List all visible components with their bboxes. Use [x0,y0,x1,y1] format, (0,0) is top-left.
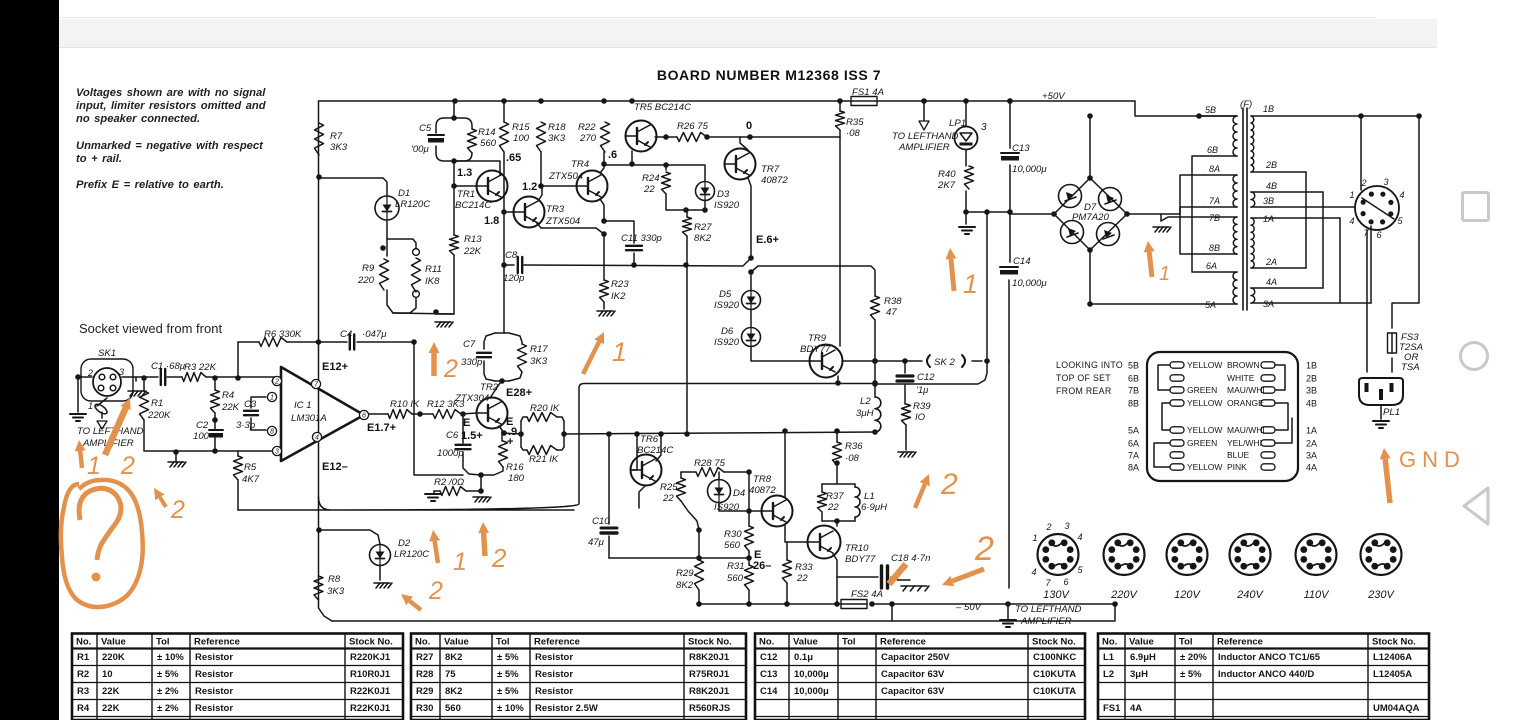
svg-text:Reference: Reference [1217,637,1263,648]
svg-text:10: 10 [102,669,113,680]
svg-text:No.: No. [76,637,91,648]
svg-text:2: 2 [274,379,279,386]
svg-text:120V: 120V [1174,589,1201,601]
svg-text:2A: 2A [1306,439,1317,449]
svg-text:4: 4 [1077,532,1082,542]
svg-text:D3: D3 [717,189,730,200]
svg-text:C8: C8 [505,250,518,261]
svg-text:AMPLIFIER: AMPLIFIER [1020,616,1072,627]
svg-text:4: 4 [1031,567,1036,577]
svg-text:± 10%: ± 10% [157,652,184,663]
svg-text:C10KUTA: C10KUTA [1033,669,1076,680]
svg-text:YELLOW: YELLOW [1187,462,1222,472]
svg-text:R17: R17 [530,344,548,355]
svg-text:2: 2 [1360,178,1366,188]
svg-text:4A: 4A [1266,277,1277,287]
svg-text:R2 /0Ω: R2 /0Ω [434,477,464,488]
svg-text:D5: D5 [719,289,732,300]
svg-text:5B: 5B [1128,361,1139,371]
svg-text:R23: R23 [611,279,629,290]
svg-text:2B: 2B [1265,160,1277,170]
svg-text:8K2: 8K2 [676,580,694,591]
svg-text:C10: C10 [592,516,610,527]
svg-text:C14: C14 [760,686,778,697]
svg-text:R27: R27 [694,222,712,233]
svg-text:L12405A: L12405A [1373,669,1412,680]
svg-text:E28+: E28+ [506,387,532,399]
svg-text:4K7: 4K7 [242,474,260,485]
svg-text:C12: C12 [917,372,935,383]
svg-text:1.8: 1.8 [484,215,499,227]
svg-text:TR4: TR4 [571,159,589,170]
svg-text:R37: R37 [826,491,844,502]
svg-text:R15: R15 [512,122,530,133]
svg-text:6B: 6B [1128,374,1139,384]
svg-text:UM04AQA: UM04AQA [1373,703,1420,714]
svg-text:LR120C: LR120C [395,199,430,210]
svg-text:1.3: 1.3 [457,167,472,179]
svg-text:R22K0J1: R22K0J1 [350,703,391,714]
svg-text:C18 4·7n: C18 4·7n [891,553,930,564]
svg-text:1: 1 [270,395,274,402]
svg-text:Value: Value [793,637,818,648]
svg-text:L1: L1 [1103,652,1115,663]
svg-text:3μH: 3μH [856,408,874,419]
svg-text:22: 22 [796,573,808,584]
svg-text:R4: R4 [222,390,234,401]
svg-text:TR10: TR10 [845,543,869,554]
svg-text:FS2 4A: FS2 4A [851,589,883,600]
svg-text:560: 560 [445,703,461,714]
svg-text:Stock No.: Stock No. [1032,637,1076,648]
svg-text:22: 22 [827,502,839,513]
svg-text:5: 5 [1397,216,1403,226]
svg-text:4A: 4A [1306,463,1317,473]
svg-text:C1 ·68μ: C1 ·68μ [151,361,186,372]
svg-text:1: 1 [87,452,101,480]
svg-text:BOARD NUMBER M12368 ISS 7: BOARD NUMBER M12368 ISS 7 [657,67,881,83]
svg-text:3: 3 [1383,177,1388,187]
svg-text:8K2: 8K2 [694,233,712,244]
svg-text:TO LEFTHAND: TO LEFTHAND [892,131,959,142]
svg-text:3B: 3B [1306,386,1317,396]
svg-text:R5: R5 [244,462,257,473]
svg-text:to + rail.: to + rail. [76,153,122,165]
svg-text:TR9: TR9 [808,333,827,344]
svg-text:ZTX304: ZTX304 [454,393,489,404]
svg-text:R39: R39 [913,401,931,412]
svg-text:3·3p: 3·3p [236,420,256,431]
svg-text:Capacitor 63V: Capacitor 63V [881,669,945,680]
svg-text:R38: R38 [884,296,902,307]
svg-text:R6 330K: R6 330K [264,329,302,340]
svg-text:R3: R3 [77,686,89,697]
svg-text:± 10%: ± 10% [497,703,524,714]
svg-text:SK 2: SK 2 [934,357,955,368]
svg-text:IO: IO [915,412,926,423]
svg-text:R35: R35 [846,117,864,128]
svg-text:2: 2 [1045,522,1051,532]
svg-text:Tol: Tol [496,637,510,648]
svg-text:Prefix E = relative to earth.: Prefix E = relative to earth. [76,179,224,191]
svg-text:5A: 5A [1205,300,1216,310]
svg-text:1.5+: 1.5+ [461,430,483,442]
svg-text:Inductor ANCO 440/D: Inductor ANCO 440/D [1218,669,1314,680]
svg-text:R26 75: R26 75 [677,121,709,132]
svg-text:AMPLIFIER: AMPLIFIER [898,142,950,153]
svg-text:8A: 8A [1128,463,1139,473]
svg-text:22: 22 [662,493,674,504]
svg-text:Stock No.: Stock No. [349,637,393,648]
svg-text:TR5 BC214C: TR5 BC214C [634,102,691,113]
svg-text:YELLOW: YELLOW [1187,360,1222,370]
svg-text:47μ: 47μ [588,537,605,548]
svg-text:8B: 8B [1209,243,1220,253]
svg-text:R8K20J1: R8K20J1 [689,652,730,663]
svg-text:'00μ: '00μ [411,144,430,155]
svg-text:C13: C13 [1012,143,1030,154]
svg-text:2: 2 [170,496,185,524]
svg-text:TR7: TR7 [761,164,780,175]
svg-text:3K3: 3K3 [327,586,345,597]
svg-text:ORANGE: ORANGE [1227,398,1264,408]
svg-text:YEL/WHI: YEL/WHI [1227,438,1262,448]
svg-text:330p: 330p [461,357,483,368]
svg-text:R16: R16 [506,462,524,473]
svg-text:R28: R28 [416,669,433,680]
svg-text:R8: R8 [328,574,341,585]
svg-text:R10R0J1: R10R0J1 [350,669,391,680]
svg-text:R30: R30 [416,703,433,714]
svg-text:7: 7 [1363,228,1369,238]
svg-text:6: 6 [1376,230,1381,240]
svg-text:7A: 7A [1209,196,1220,206]
svg-text:R22K0J1: R22K0J1 [350,686,391,697]
svg-text:1.2: 1.2 [522,181,537,193]
svg-text:BC214C: BC214C [455,200,491,211]
svg-text:7: 7 [1045,578,1051,588]
svg-text:R8K20J1: R8K20J1 [689,686,730,697]
svg-text:E12–: E12– [322,461,348,473]
svg-text:R14: R14 [478,127,496,138]
svg-text:(F): (F) [1240,99,1252,110]
svg-text:6A: 6A [1128,439,1139,449]
svg-text:560: 560 [724,540,741,551]
svg-text:No.: No. [759,637,774,648]
svg-text:1A: 1A [1306,426,1317,436]
svg-text:± 5%: ± 5% [497,669,519,680]
svg-text:TO LEFTHAND: TO LEFTHAND [1015,604,1082,615]
svg-text:no speaker connected.: no speaker connected. [76,113,200,125]
svg-text:220K: 220K [147,410,171,421]
svg-text:180: 180 [508,473,525,484]
svg-text:8B: 8B [1128,399,1139,409]
svg-text:R36: R36 [845,441,863,452]
svg-text:1B: 1B [1306,361,1317,371]
svg-text:± 20%: ± 20% [1180,652,1207,663]
svg-text:100: 100 [193,431,210,442]
svg-text:PINK: PINK [1227,462,1247,472]
svg-text:D1: D1 [398,188,410,199]
svg-text:Resistor: Resistor [535,652,573,663]
svg-text:LM301A: LM301A [291,413,327,424]
svg-text:R75R0J1: R75R0J1 [689,669,730,680]
svg-text:0: 0 [746,120,752,132]
svg-text:75: 75 [445,669,456,680]
svg-text:E: E [463,417,470,429]
svg-text:220: 220 [357,275,375,286]
svg-text:130V: 130V [1043,589,1070,601]
svg-text:'1μ: '1μ [916,385,929,396]
svg-text:22K: 22K [102,686,120,697]
svg-text:SK1: SK1 [98,348,116,359]
svg-text:R30: R30 [724,529,742,540]
svg-text:YELLOW: YELLOW [1187,398,1222,408]
svg-text:220K: 220K [102,652,125,663]
svg-text:4B: 4B [1266,181,1277,191]
svg-text:560: 560 [727,573,744,584]
svg-text:BLUE: BLUE [1227,450,1250,460]
svg-text:Resistor: Resistor [195,669,233,680]
svg-text:IS920: IS920 [714,300,740,311]
svg-text:FS1: FS1 [1103,703,1121,714]
svg-text:1: 1 [88,401,93,411]
svg-text:1B: 1B [1263,104,1274,114]
svg-text:3A: 3A [1306,451,1317,461]
svg-text:IS920: IS920 [714,200,740,211]
svg-text:YELLOW: YELLOW [1187,425,1222,435]
svg-text:R29: R29 [676,568,694,579]
svg-text:R22: R22 [578,122,596,133]
svg-text:R10 IK: R10 IK [390,399,420,410]
svg-text:C12: C12 [760,652,777,663]
svg-text:R27: R27 [416,652,433,663]
svg-text:3: 3 [275,449,279,456]
svg-text:C10KUTA: C10KUTA [1033,686,1076,697]
svg-text:·08: ·08 [846,128,861,139]
svg-text:40872: 40872 [761,175,788,186]
svg-text:Capacitor 250V: Capacitor 250V [881,652,950,663]
svg-text:± 2%: ± 2% [157,686,179,697]
svg-text:8K2: 8K2 [445,686,462,697]
svg-text:GND: GND [1399,447,1466,472]
svg-text:R24: R24 [642,173,660,184]
svg-text:3K3: 3K3 [530,356,548,367]
svg-text:Capacitor 63V: Capacitor 63V [881,686,945,697]
svg-text:22K: 22K [102,703,120,714]
svg-text:IK8: IK8 [425,276,440,287]
svg-text:L12406A: L12406A [1373,652,1412,663]
svg-text:R25: R25 [660,482,678,493]
svg-text:C5: C5 [419,123,432,134]
svg-text:2: 2 [443,355,458,383]
svg-text:2: 2 [491,543,507,573]
svg-text:FROM REAR: FROM REAR [1056,386,1111,396]
svg-text:2B: 2B [1306,374,1317,384]
svg-text:5A: 5A [1128,426,1139,436]
svg-text:1000p: 1000p [437,448,464,459]
svg-text:·08: ·08 [845,453,860,464]
svg-text:± 5%: ± 5% [497,652,519,663]
svg-text:·047μ: ·047μ [362,329,387,340]
svg-text:TOP OF SET: TOP OF SET [1056,373,1111,383]
svg-text:1: 1 [1349,190,1354,200]
svg-text:230V: 230V [1367,589,1395,601]
svg-text:6·9μH: 6·9μH [861,502,887,513]
svg-text:E.6+: E.6+ [756,234,779,246]
svg-text:C13: C13 [760,669,777,680]
svg-text:3A: 3A [1263,299,1274,309]
svg-text:IK2: IK2 [611,291,626,302]
svg-text:3K3: 3K3 [330,142,348,153]
svg-text:TR8: TR8 [753,474,772,485]
svg-text:TR2: TR2 [480,382,499,393]
svg-text:1: 1 [453,548,467,576]
svg-text:4A: 4A [1130,703,1142,714]
svg-text:Resistor: Resistor [535,669,573,680]
svg-text:No.: No. [1102,637,1117,648]
svg-text:C7: C7 [463,339,476,350]
svg-text:10,000μ: 10,000μ [794,669,829,680]
svg-text:R28 75: R28 75 [694,458,726,469]
svg-text:R2: R2 [77,669,89,680]
svg-text:5: 5 [1077,565,1083,575]
svg-text:R40: R40 [938,169,956,180]
svg-text:D2: D2 [398,538,411,549]
svg-text:input, limiter resistors omitt: input, limiter resistors omitted and [76,100,267,112]
svg-text:Value: Value [101,637,126,648]
svg-text:220V: 220V [1110,589,1138,601]
svg-text:Reference: Reference [194,637,240,648]
svg-text:3μH: 3μH [1130,669,1148,680]
svg-text:TSA: TSA [1401,362,1420,373]
svg-text:2: 2 [974,530,994,568]
svg-text:3: 3 [1064,521,1069,531]
svg-text:C11 330p: C11 330p [621,233,663,244]
svg-text:4: 4 [1399,190,1404,200]
svg-text:BROWN: BROWN [1227,360,1260,370]
svg-text:4B: 4B [1306,399,1317,409]
svg-text:IS920: IS920 [714,502,740,513]
svg-text:10,000μ: 10,000μ [1012,278,1047,289]
svg-text:C14: C14 [1013,256,1031,267]
svg-text:R13: R13 [464,234,482,245]
svg-text:1: 1 [963,269,978,299]
svg-text:IC 1: IC 1 [294,400,312,411]
svg-text:3: 3 [119,367,124,377]
svg-text:.6: .6 [608,149,617,161]
svg-text:R11: R11 [425,264,442,275]
svg-text:0.1μ: 0.1μ [794,652,813,663]
svg-text:R1: R1 [151,398,163,409]
svg-text:8K2: 8K2 [445,652,462,663]
svg-text:TR6: TR6 [640,434,659,445]
svg-text:No.: No. [415,637,430,648]
svg-text:R1: R1 [77,652,90,663]
svg-text:3: 3 [981,122,987,133]
svg-text:1A: 1A [1263,214,1274,224]
svg-text:R18: R18 [548,122,566,133]
svg-text:FS1 4A: FS1 4A [852,87,884,98]
svg-text:6B: 6B [1207,145,1218,155]
svg-text:C6: C6 [446,430,459,441]
svg-text:D6: D6 [721,326,734,337]
svg-text:1: 1 [612,337,627,367]
svg-text:Inductor ANCO TC1/65: Inductor ANCO TC1/65 [1218,652,1321,663]
svg-text:IS920: IS920 [714,337,740,348]
svg-text:L2: L2 [1103,669,1114,680]
svg-text:BDY77: BDY77 [845,554,876,565]
svg-text:PM7A20: PM7A20 [1072,212,1109,223]
svg-text:560: 560 [480,138,497,149]
svg-text:8A: 8A [1209,164,1220,174]
svg-text:R31: R31 [727,561,745,572]
svg-text:2: 2 [940,468,958,501]
svg-text:Reference: Reference [880,637,926,648]
svg-text:ZTX504: ZTX504 [548,171,583,182]
svg-text:3K3: 3K3 [548,133,566,144]
svg-text:Resistor 2.5W: Resistor 2.5W [535,703,598,714]
svg-text:4: 4 [1349,216,1354,226]
svg-text:BC214C: BC214C [637,445,673,456]
svg-text:6: 6 [362,413,366,420]
svg-text:LP1: LP1 [949,118,966,129]
svg-text:GREEN: GREEN [1187,438,1217,448]
svg-text:ZTX504: ZTX504 [545,216,580,227]
svg-text:2: 2 [87,368,93,378]
svg-text:R29: R29 [416,686,433,697]
svg-text:C3: C3 [244,399,257,410]
svg-text:E12+: E12+ [322,361,348,373]
svg-text:7A: 7A [1128,451,1139,461]
svg-text:7B: 7B [1128,386,1139,396]
svg-text:Reference: Reference [534,637,580,648]
svg-text:MAU/WHI: MAU/WHI [1227,385,1265,395]
svg-text:R4: R4 [77,703,90,714]
svg-text:GREEN: GREEN [1187,385,1217,395]
svg-text:E1.7+: E1.7+ [367,422,396,434]
svg-text:26–: 26– [753,560,771,572]
svg-text:C4: C4 [340,329,352,340]
svg-text:– 50V: – 50V [955,602,983,613]
svg-text:10,000μ: 10,000μ [794,686,829,697]
svg-text:R220KJ1: R220KJ1 [350,652,391,663]
svg-text:6.9μH: 6.9μH [1130,652,1156,663]
svg-text:100: 100 [513,133,530,144]
svg-text:1: 1 [1159,263,1170,285]
svg-text:± 5%: ± 5% [157,669,179,680]
svg-text:R20 IK: R20 IK [530,403,560,414]
svg-text:2A: 2A [1265,257,1277,267]
svg-text:C100NKC: C100NKC [1033,652,1076,663]
svg-text:WHITE: WHITE [1227,373,1255,383]
svg-text:Tol: Tol [842,637,856,648]
svg-text:Stock No.: Stock No. [1372,637,1416,648]
svg-text:Stock No.: Stock No. [688,637,732,648]
svg-text:C2: C2 [196,420,209,431]
svg-text:2K7: 2K7 [937,180,956,191]
svg-text:.65: .65 [506,152,521,164]
svg-text:Unmarked = negative with respe: Unmarked = negative with respect [76,140,264,152]
svg-text:± 2%: ± 2% [157,703,179,714]
svg-text:Value: Value [1129,637,1154,648]
svg-text:120p: 120p [503,273,525,284]
svg-text:6A: 6A [1206,261,1217,271]
svg-text:TR3: TR3 [546,204,565,215]
svg-text:6: 6 [1063,577,1068,587]
svg-text:R3 22K: R3 22K [184,362,217,373]
svg-text:22: 22 [643,184,655,195]
